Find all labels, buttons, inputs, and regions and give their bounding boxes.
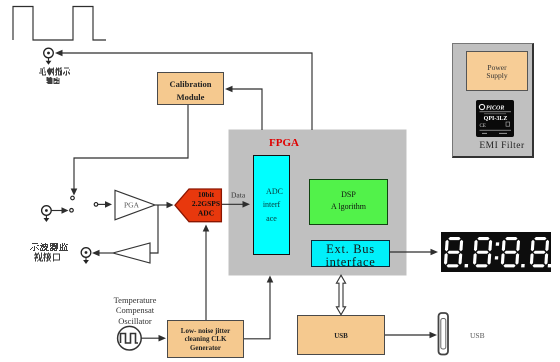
svg-text:ADC: ADC (198, 209, 214, 218)
Calibration Module block (157, 72, 224, 105)
wire calibration to FPGA top (227, 89, 262, 130)
oscillator circle symbol (118, 326, 142, 350)
svg-text:FPGA: FPGA (269, 137, 299, 149)
switch contact node upper (from calibration) (71, 196, 75, 200)
label USB port (470, 331, 500, 340)
label 示波器监 (30, 243, 68, 251)
square wave signal (13, 7, 106, 41)
wire monitor amp to monitor connector (99, 252, 113, 254)
switch contact node lower (70, 209, 74, 213)
label EMI Filter (470, 141, 534, 151)
Ext Bus interface block (311, 240, 390, 267)
ADC converter (red pentagon) (175, 189, 221, 222)
label 视接口 (34, 253, 60, 262)
op-amp PGA (115, 190, 155, 220)
wire CLK generator up to ADC clock input (205, 228, 207, 320)
connector J1 glitch output (44, 48, 54, 65)
ADC interface block (253, 155, 290, 255)
USB block (297, 315, 385, 355)
svg-text:QPI-3LZ: QPI-3LZ (483, 116, 507, 122)
connector J2 signal input (42, 206, 52, 222)
connector J3 oscilloscope monitor (81, 248, 91, 264)
svg-text:Data: Data (231, 191, 246, 200)
bidirectional bus arrow FPGA-USB (336, 275, 345, 315)
op-amp monitor buffer (113, 243, 150, 263)
wire PGA output to monitor amp (feedback tap) (150, 205, 158, 253)
label Temperature Compensat Oscillator (90, 295, 180, 326)
svg-text:PGA: PGA (124, 201, 140, 210)
EMI filter panel (452, 43, 534, 158)
svg-text:10bit: 10bit (198, 190, 215, 199)
switch common contact node (94, 203, 98, 207)
wire input connector to switch contact (52, 210, 63, 212)
CLK generator block (167, 320, 244, 358)
svg-text:2.2GSPS: 2.2GSPS (192, 199, 220, 208)
wire PGA to ADC (155, 204, 167, 206)
display panel (441, 232, 551, 272)
wire Ext Bus interface to display (390, 251, 431, 253)
wire ADC data out to ADC interface (222, 203, 244, 205)
label 输出 (47, 77, 60, 84)
wire switch to PGA (98, 203, 106, 205)
wire CLK generator to FPGA bottom (244, 281, 270, 339)
FPGA block background (229, 130, 407, 276)
USB connector symbol (439, 313, 449, 355)
DSP Algorithm block (309, 179, 388, 225)
svg-text:PICOR: PICOR (486, 106, 504, 112)
wire FPGA top to glitch connector (57, 53, 312, 130)
label 毛刺指示 (39, 68, 70, 76)
EMI filter module QPI-3LZ (476, 100, 515, 137)
power supply module (466, 51, 528, 91)
wire USB to USB connector (385, 334, 430, 336)
wire calibration bottom to switch (74, 105, 188, 189)
svg-text:CE: CE (479, 124, 485, 129)
wire oscillator to CLK generator (142, 337, 160, 339)
